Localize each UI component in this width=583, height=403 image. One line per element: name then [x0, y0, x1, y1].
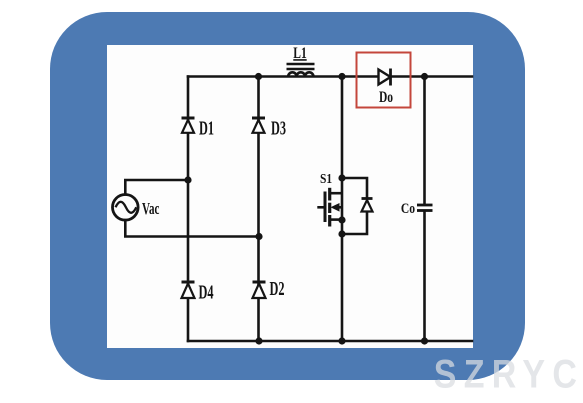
transistor S1 channel segment (body) [328, 203, 331, 213]
wire Vac top lead [125, 180, 188, 195]
junction S1 source stub [338, 216, 345, 223]
diode Do cathode bar [389, 69, 392, 86]
svg-text:D4: D4 [199, 281, 214, 304]
diode D4 cathode bar [182, 281, 195, 284]
junction bottom rail / S1 leg [338, 337, 345, 344]
diode D2 cathode bar [253, 281, 266, 284]
inductor L1 winding humps [288, 72, 313, 76]
svg-text:D1: D1 [199, 117, 214, 140]
wire top rail [188, 75, 472, 78]
svg-text:D3: D3 [271, 117, 286, 140]
diode D3 triangle [253, 120, 265, 133]
svg-text:S1: S1 [320, 171, 332, 186]
transistor S1 body stub [335, 206, 342, 209]
svg-text:D2: D2 [270, 277, 285, 300]
wire output cap leg top [423, 77, 426, 205]
wire switch leg (S1) [341, 77, 344, 342]
body diode of S1 triangle [362, 200, 373, 212]
wire left leg (D1/D4) [187, 77, 190, 342]
AC source Vac circle [113, 195, 139, 221]
wire body-diode branch lower [342, 212, 367, 235]
AC source Vac sine wave [116, 202, 137, 213]
junction Vac bottom lead / D3-D2 leg [255, 233, 262, 240]
diode Do triangle [379, 70, 391, 85]
red highlight box around Do [357, 53, 411, 108]
transistor S1 drain stub [330, 192, 342, 195]
capacitor Co bottom plate [417, 209, 433, 212]
transistor S1 source stub [330, 218, 342, 221]
body diode of S1 cathode bar [362, 197, 373, 200]
svg-text:SZRYC: SZRYC [434, 351, 583, 396]
inductor L1 core bar upper [287, 63, 315, 66]
wire bottom rail [188, 340, 472, 343]
junction top rail / Co leg [421, 73, 428, 80]
wire output cap leg bottom [423, 212, 426, 342]
junction top rail / S1 leg [338, 73, 345, 80]
junction top rail / D3 leg [255, 73, 262, 80]
blue rounded frame [50, 12, 525, 380]
transistor S1 channel segment (source) [328, 215, 331, 227]
inductor L1 core bar lower [287, 68, 315, 71]
transistor S1 channel segment (drain) [328, 188, 331, 201]
diode D1 cathode bar [182, 117, 195, 120]
svg-text:Vac: Vac [142, 200, 159, 219]
junction S1 drain / body-diode branch [338, 174, 345, 181]
wire body-diode branch upper [342, 178, 367, 199]
diode D2 triangle [253, 284, 266, 299]
diode D3 cathode bar [252, 117, 265, 120]
mosfet S1 arrow [331, 203, 340, 212]
svg-text:Do: Do [379, 89, 393, 106]
white schematic panel [107, 45, 473, 348]
junction bottom rail / D2 leg [255, 337, 262, 344]
svg-text:L1: L1 [293, 45, 306, 62]
transistor S1 gate lead [317, 206, 325, 209]
junction bottom rail / Co leg [421, 337, 428, 344]
capacitor Co top plate [417, 204, 433, 207]
diode D4 triangle [182, 284, 195, 299]
diode D1 triangle [182, 120, 194, 133]
transistor S1 gate bar [324, 192, 327, 223]
junction Vac top lead / D1-D4 leg [184, 176, 191, 183]
svg-text:Co: Co [401, 200, 416, 217]
wire Vac bottom lead [125, 220, 259, 237]
wire middle leg (D3/D2) [257, 77, 260, 342]
junction S1 source / body-diode branch [338, 230, 345, 237]
